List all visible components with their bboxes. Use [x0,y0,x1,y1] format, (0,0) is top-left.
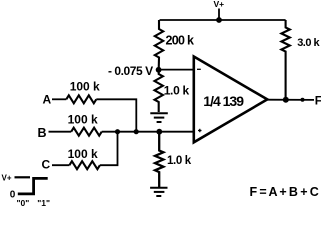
svg-text:100 k: 100 k [70,80,100,94]
svg-text:200 k: 200 k [166,33,195,47]
resistor 100 k input B [71,128,102,136]
wire B lead [49,131,72,133]
svg-text:0: 0 [10,189,16,200]
resistor 1.0 k lower [155,132,163,187]
resistor 200 k [155,20,163,70]
junction divider tap [156,129,162,135]
svg-text:F: F [315,93,321,107]
svg-text:A: A [43,93,52,107]
ground lower [150,188,167,196]
resistor 1.0 k upper [155,70,163,112]
svg-text:100 k: 100 k [68,113,98,127]
wire C up to summing node [100,132,118,166]
svg-text:1.0 k: 1.0 k [167,155,192,167]
wire A lead [52,98,66,100]
svg-text:B: B [38,126,47,140]
node -0.075V junction [156,67,162,73]
svg-text:V+: V+ [2,174,12,183]
svg-text:F = A + B + C: F = A + B + C [250,185,319,199]
wire op-amp output [265,99,314,101]
wire V+ level dash [15,176,31,178]
svg-text:3.0 k: 3.0 k [297,37,320,49]
wire A to node [96,99,136,131]
svg-text:V+: V+ [214,0,225,9]
wire V+ stub [218,9,220,21]
pin minus mark [197,68,201,70]
wire top supply rail [160,19,286,21]
wire node to inverting input [159,69,194,71]
wire summing line to non-inverting input [102,131,194,133]
op-amp 1/4 139 comparator triangle [194,57,267,143]
ground upper [150,113,168,122]
junction V+ on rail [216,17,222,23]
svg-text:- 0.075 V: - 0.075 V [108,64,153,78]
svg-text:1.0 k: 1.0 k [164,84,190,98]
svg-text:100 k: 100 k [68,147,98,161]
junction A joins [134,129,139,134]
resistor 3.0 k pullup [281,20,289,100]
resistor 100 k input C [69,161,100,169]
svg-text:C: C [42,158,51,172]
junction small output dot [301,98,305,102]
svg-text:"0""1": "0""1" [17,198,50,208]
junction C joins [115,129,120,134]
waveform input step [18,178,48,194]
junction output node [283,97,289,103]
svg-text:1/4 139: 1/4 139 [203,93,244,109]
wire C lead [52,164,69,166]
pin plus mark [198,129,202,132]
resistor 100 k input A [66,95,96,103]
